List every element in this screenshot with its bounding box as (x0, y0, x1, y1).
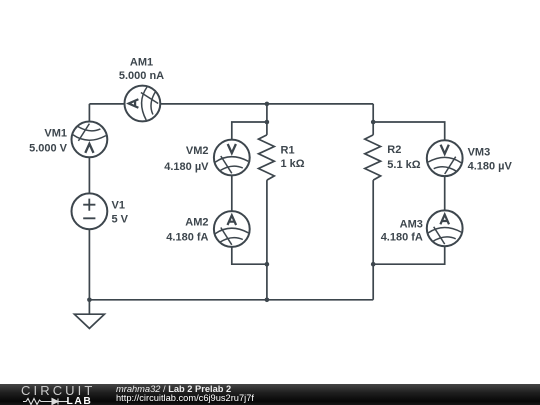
svg-text:VM1: VM1 (44, 127, 67, 139)
svg-text:4.180 µV: 4.180 µV (164, 161, 209, 173)
svg-text:R1: R1 (281, 145, 295, 157)
svg-text:4.180 fA: 4.180 fA (166, 231, 208, 243)
svg-text:AM1: AM1 (130, 57, 153, 69)
svg-text:VM2: VM2 (186, 145, 209, 157)
svg-text:AM3: AM3 (400, 219, 423, 231)
svg-text:VM3: VM3 (468, 147, 491, 159)
svg-text:4.180 µV: 4.180 µV (468, 161, 513, 173)
svg-text:5.000 nA: 5.000 nA (119, 70, 164, 82)
svg-text:4.180 fA: 4.180 fA (381, 231, 423, 243)
svg-text:5.1 kΩ: 5.1 kΩ (387, 159, 420, 171)
svg-text:V1: V1 (112, 200, 125, 212)
svg-text:1 kΩ: 1 kΩ (281, 158, 305, 170)
svg-text:R2: R2 (387, 144, 401, 156)
svg-text:5.000 V: 5.000 V (29, 142, 68, 154)
svg-text:AM2: AM2 (185, 217, 208, 229)
svg-text:5 V: 5 V (112, 213, 129, 225)
